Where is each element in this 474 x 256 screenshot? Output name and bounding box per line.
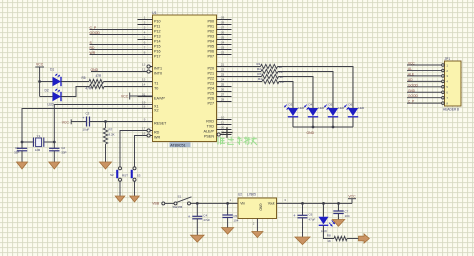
svg-text:VCC: VCC [36, 63, 44, 67]
wire P20 to R1 [232, 66, 261, 68]
wire LED D5 cathode [332, 117, 334, 127]
pin 33 P06 (right) [207, 45, 231, 53]
svg-text:13: 13 [142, 62, 146, 66]
junction dot (C6 node) [301, 202, 304, 205]
wire net GOOD to P1 pin [90, 31, 153, 35]
pin 7 P16 (left) [138, 45, 161, 53]
pin 39 P00 (right) [207, 15, 231, 23]
svg-text:INT1: INT1 [154, 67, 162, 71]
svg-text:C3: C3 [86, 112, 90, 116]
svg-text:10: 10 [221, 115, 225, 119]
junction dot (C7 node) [337, 202, 340, 205]
power VCC (EA/VP pin 31) [121, 93, 153, 100]
connector pin 1 wire net VCC [407, 62, 448, 68]
svg-text:LED: LED [338, 106, 345, 110]
cursor crosshair near PSEN [222, 127, 233, 138]
LED D1 [50, 68, 61, 87]
LED D6 [344, 102, 365, 117]
pin 9 RESET (left) [138, 117, 168, 125]
svg-text:AL: AL [408, 67, 412, 71]
svg-text:P23: P23 [207, 82, 214, 86]
svg-text:GOOD: GOOD [90, 31, 101, 35]
pin 36 P03 (right) [207, 30, 231, 38]
svg-text:23: 23 [221, 72, 225, 76]
svg-text:P14: P14 [154, 40, 161, 44]
svg-text:27: 27 [221, 92, 225, 96]
wire net GND to INT0 [91, 68, 148, 72]
pin 30 ALE/P (right) [204, 125, 232, 133]
switch S2 (push button) [110, 167, 128, 181]
svg-text:RD: RD [154, 131, 160, 135]
capacitor C2 33P (right) [49, 142, 66, 162]
svg-text:VCC: VCC [62, 120, 70, 124]
svg-text:4: 4 [144, 30, 146, 34]
svg-text:P17: P17 [154, 55, 161, 59]
pin 6 P15 (left) [138, 40, 161, 48]
pin 27 P26 (right) [207, 92, 231, 100]
svg-text:1K: 1K [327, 239, 331, 243]
svg-text:P16: P16 [154, 50, 161, 54]
svg-text:C1: C1 [15, 146, 19, 150]
wire net RD to P1 pin [90, 46, 153, 50]
capacitor C6 47uF (output electrolytic) [293, 203, 316, 237]
wire LED D4 cathode [312, 117, 314, 127]
capacitor C4 47uF (input electrolytic) [188, 203, 211, 235]
ground (S2) [115, 196, 125, 202]
svg-text:P05: P05 [207, 45, 214, 49]
svg-text:LED: LED [318, 106, 325, 110]
svg-text:C5: C5 [233, 214, 237, 218]
svg-text:VCC: VCC [408, 62, 415, 66]
pin 15 T1 (left) [138, 77, 159, 85]
svg-text:26: 26 [221, 87, 225, 91]
ground (right crystal cap) [49, 162, 60, 169]
svg-text:T0: T0 [154, 87, 158, 91]
green watermark text [218, 137, 257, 146]
svg-text:15: 15 [142, 77, 146, 81]
LED D2 [45, 89, 62, 107]
LED D4 [304, 102, 325, 117]
wire RD to switch S2 [120, 131, 147, 167]
svg-text:P26: P26 [207, 97, 214, 101]
svg-text:RESET: RESET [154, 122, 167, 126]
junction dot (C4 node) [196, 202, 199, 205]
wire S3 to ground [134, 181, 136, 196]
connector pin 7 wire net GOOD [407, 94, 448, 100]
pin 2 P11 (left) [138, 20, 161, 28]
svg-text:7: 7 [144, 45, 146, 49]
wire LED D6 cathode [352, 117, 354, 127]
junction dot (C5 node) [226, 202, 229, 205]
power VCC (5V rail) [348, 195, 356, 204]
svg-text:8: 8 [144, 50, 146, 54]
svg-text:32: 32 [221, 50, 225, 54]
pin 21 P20 (right) [207, 62, 231, 70]
svg-text:VBB: VBB [152, 202, 160, 206]
pin 4 P13 (left) [138, 30, 161, 38]
ground (C6) [295, 237, 310, 245]
svg-text:C_P: C_P [408, 100, 414, 104]
connector pin 2 wire net AL [407, 67, 448, 73]
svg-text:21: 21 [221, 62, 225, 66]
junction dot [38, 80, 41, 83]
svg-text:Vout: Vout [268, 202, 275, 206]
wire C3 to RESET pin [90, 121, 153, 123]
svg-text:47R: 47R [85, 87, 92, 91]
connector pin 6 wire net GND [407, 89, 448, 95]
svg-text:P01: P01 [207, 25, 214, 29]
svg-text:33P: 33P [61, 151, 66, 155]
svg-text:P22: P22 [207, 77, 214, 81]
wire R8 to port arrow [347, 238, 359, 240]
svg-text:R3: R3 [258, 72, 262, 76]
wire WR to switch S3 [135, 136, 148, 167]
svg-text:RXD: RXD [206, 120, 214, 124]
pin 14 T0 (left) [138, 82, 159, 90]
svg-text:GND: GND [408, 89, 416, 93]
svg-text:33P: 33P [14, 151, 19, 155]
svg-text:C6: C6 [309, 212, 313, 216]
pin 34 P05 (right) [207, 40, 231, 48]
svg-text:R4: R4 [258, 77, 262, 81]
ground (reset resistor) [100, 162, 112, 169]
svg-text:36: 36 [221, 30, 225, 34]
part value AT89C51 (highlighted) [170, 142, 191, 147]
connector pin 8 wire net C_P [407, 100, 448, 106]
svg-text:Y1: Y1 [37, 134, 41, 138]
svg-text:P06: P06 [207, 50, 214, 54]
connector JP1 body [443, 57, 461, 112]
wire X1 to crystal right node [54, 105, 152, 143]
svg-text:34: 34 [221, 40, 225, 44]
svg-text:33: 33 [221, 45, 225, 49]
wire LED ground rail [293, 126, 353, 128]
svg-text:1: 1 [144, 15, 146, 19]
pin 3 P12 (left) [138, 25, 161, 33]
capacitor C7 104 (bypass) [333, 203, 350, 219]
svg-text:P04: P04 [207, 40, 214, 44]
svg-text:D2: D2 [45, 89, 49, 93]
svg-text:39: 39 [221, 15, 225, 19]
wire net S to P1 pin [90, 41, 153, 45]
svg-text:U1: U1 [152, 11, 157, 15]
pin 35 P04 (right) [207, 35, 231, 43]
wire X2 to crystal left node [22, 109, 153, 143]
svg-text:GND: GND [91, 68, 99, 72]
svg-text:8.2K: 8.2K [109, 132, 115, 136]
ground (C4) [191, 235, 205, 242]
wire regulator pin2 to ground [256, 219, 258, 232]
wire D2 cathode to R6 [61, 87, 90, 97]
svg-text:P12: P12 [154, 30, 161, 34]
junction dot (crystal left) [21, 141, 24, 144]
svg-text:28: 28 [221, 97, 225, 101]
svg-text:12M: 12M [35, 148, 41, 152]
svg-text:12: 12 [142, 67, 146, 71]
svg-text:47R: 47R [96, 74, 103, 78]
svg-text:P27: P27 [207, 102, 214, 106]
connector pin 5 wire net GOOD [407, 83, 448, 89]
wire S2 to ground [119, 181, 121, 196]
svg-text:LED: LED [298, 106, 305, 110]
pin 11 TXD (right) [207, 120, 232, 128]
svg-text:C_P: C_P [90, 26, 97, 30]
junction dot (crystal right) [53, 141, 56, 144]
svg-text:104: 104 [345, 214, 350, 218]
svg-text:INT0: INT0 [154, 72, 162, 76]
svg-text:SW-PB: SW-PB [173, 205, 183, 209]
svg-text:R7: R7 [109, 128, 113, 132]
svg-text:37: 37 [221, 25, 225, 29]
svg-text:P02: P02 [207, 30, 214, 34]
svg-text:LED: LED [48, 102, 55, 106]
switch S3 (push button) [131, 167, 141, 181]
svg-text:D5: D5 [329, 102, 333, 106]
wire R6 to T0 [104, 86, 153, 88]
LED D5 [324, 102, 345, 117]
svg-text:P24: P24 [207, 87, 214, 91]
wire regulator output rail [277, 202, 353, 204]
pin 8 P17 (left) [138, 50, 161, 58]
pin 29 PSEN (right) [204, 130, 232, 138]
svg-text:35: 35 [221, 35, 225, 39]
svg-text:U2: U2 [238, 193, 242, 197]
svg-text:P21: P21 [207, 72, 214, 76]
ground (left crystal cap) [17, 162, 28, 169]
svg-text:P00: P00 [207, 20, 214, 24]
svg-text:RST: RST [122, 174, 128, 178]
pin 23 P22 (right) [207, 72, 231, 80]
wire P21 to R2 [232, 71, 262, 73]
wire D1 cathode to R5 [61, 81, 89, 83]
svg-text:WR: WR [154, 136, 160, 140]
svg-text:LED: LED [358, 106, 365, 110]
svg-text:VCC: VCC [348, 195, 356, 199]
svg-text:VCC: VCC [121, 94, 129, 98]
svg-text:10uF: 10uF [83, 128, 90, 132]
resistor R7 8.2K (reset pulldown) [103, 122, 114, 163]
wire net WR to P1 pin [90, 51, 153, 55]
svg-text:GOOD: GOOD [408, 94, 418, 98]
svg-text:T1: T1 [154, 82, 158, 86]
svg-text:WR: WR [90, 51, 96, 55]
wire R5 to T1 [104, 81, 153, 83]
svg-text:R1: R1 [257, 62, 261, 66]
svg-text:16: 16 [142, 131, 146, 135]
svg-text:AD: AD [408, 78, 413, 82]
connector pin 4 wire net AD [407, 78, 448, 84]
capacitor C1 33P (left) [14, 142, 27, 162]
svg-text:24: 24 [221, 77, 225, 81]
pin 28 P27 (right) [207, 97, 231, 105]
svg-text:GND: GND [259, 204, 263, 212]
junction dot (reset node) [104, 120, 107, 123]
capacitor C3 10uF (reset) [82, 112, 90, 132]
svg-text:L7805: L7805 [247, 193, 256, 197]
pin 16 WR (left) [142, 131, 161, 139]
svg-text:P15: P15 [154, 45, 161, 49]
svg-text:R8: R8 [327, 233, 331, 237]
svg-text:P20: P20 [207, 67, 214, 71]
power VCC (top left) [35, 63, 44, 97]
wire net C_P to P1 pin [90, 26, 153, 30]
ground (C7) [332, 220, 344, 227]
pin 22 P21 (right) [207, 67, 231, 75]
resistor R8 1K [327, 233, 347, 243]
svg-text:22: 22 [221, 67, 225, 71]
pin 38 P01 (right) [207, 20, 231, 28]
ground (regulator) [252, 232, 263, 238]
wire D1 anode [40, 81, 53, 83]
wire R3 to LED drop [279, 77, 314, 109]
svg-text:38: 38 [221, 20, 225, 24]
svg-text:+: + [293, 213, 296, 218]
svg-text:R2: R2 [257, 67, 261, 71]
svg-text:RD: RD [90, 46, 95, 50]
ground (C5) [222, 228, 234, 235]
svg-text:30: 30 [221, 125, 225, 129]
svg-text:P13: P13 [154, 35, 161, 39]
svg-text:18: 18 [142, 104, 146, 108]
resistor R6 47R [85, 84, 104, 90]
svg-text:D1: D1 [50, 68, 54, 72]
pin 24 P23 (right) [207, 77, 231, 85]
voltage regulator U2 L7805 [230, 193, 287, 226]
pin 31 EA/VP (left) [138, 92, 166, 100]
LED D3 [284, 102, 305, 117]
microcontroller U1 AT89C51 body [152, 11, 217, 142]
resistor R1 1K [257, 62, 284, 69]
svg-text:S3: S3 [137, 174, 141, 178]
junction dot (rail) [332, 126, 335, 129]
pin 13 INT1 (left) [142, 62, 162, 70]
svg-text:3: 3 [144, 25, 146, 29]
resistor R5 47R [82, 74, 104, 84]
wire R1 to LED drop [278, 67, 354, 109]
capacitor C5 104 [222, 203, 238, 227]
svg-text:6: 6 [144, 40, 146, 44]
pin 32 P07 (right) [207, 50, 231, 58]
svg-text:D4: D4 [309, 102, 313, 106]
port arrow (net out) [359, 234, 370, 243]
svg-text:5: 5 [144, 35, 146, 39]
pin 18 X2 (left) [138, 104, 159, 112]
power port VBB (battery input) [152, 202, 174, 206]
pin 17 RD (left) [142, 126, 160, 134]
resistor R2 1K [257, 67, 284, 74]
svg-text:2: 2 [144, 20, 146, 24]
svg-text:LED: LED [321, 229, 328, 233]
wire D2 anode [40, 96, 53, 98]
svg-text:D6: D6 [349, 102, 353, 106]
svg-text:P10: P10 [154, 20, 161, 24]
power VCC (reset) [62, 119, 87, 124]
pin 10 RXD (right) [206, 115, 231, 123]
pin 1 P10 (left) [138, 15, 161, 23]
svg-text:GND: GND [307, 131, 315, 135]
svg-text:R5: R5 [82, 76, 86, 80]
junction dot (D7 node) [322, 202, 325, 205]
svg-text:+: + [188, 214, 191, 219]
resistor R3 1K [258, 72, 285, 79]
svg-text:JP1: JP1 [445, 57, 451, 61]
svg-text:11: 11 [221, 120, 224, 124]
svg-text:TXD: TXD [207, 125, 215, 129]
svg-text:P25: P25 [207, 92, 214, 96]
svg-text:AT89C51: AT89C51 [170, 143, 185, 147]
pin 37 P02 (right) [207, 25, 231, 33]
ground (S3) [130, 196, 140, 202]
pin 5 P14 (left) [138, 35, 161, 43]
wire D7 cathode to R8 [324, 225, 335, 238]
crystal Y1 [22, 134, 54, 152]
LED D7 (power indicator) [319, 203, 335, 232]
svg-text:17: 17 [142, 126, 146, 130]
svg-text:P07: P07 [207, 55, 214, 59]
svg-text:PSEN: PSEN [204, 135, 214, 139]
wire switch to regulator input [191, 202, 239, 204]
svg-text:ALE: ALE [408, 72, 414, 76]
resistor R4 1K [258, 77, 285, 84]
junction dot (rail) [312, 126, 315, 129]
svg-text:47uF: 47uF [203, 218, 210, 222]
svg-text:X2: X2 [154, 109, 159, 113]
wire R2 to LED drop [278, 72, 333, 109]
switch S1 SW-PB [173, 194, 192, 209]
svg-text:HEADER 8: HEADER 8 [443, 107, 459, 111]
svg-text:GOOD: GOOD [408, 83, 418, 87]
svg-text:S2: S2 [110, 173, 114, 177]
svg-text:C7: C7 [345, 210, 349, 214]
svg-text:C2: C2 [61, 146, 65, 150]
svg-text:Vin: Vin [240, 202, 245, 206]
svg-text:C4: C4 [203, 213, 207, 217]
svg-text:14: 14 [142, 82, 146, 86]
pin 19 X1 (left) [138, 100, 159, 108]
svg-text:ALE/P: ALE/P [204, 130, 215, 134]
wire LED D3 cathode [292, 117, 294, 127]
wire P22 to R3 [232, 76, 262, 78]
svg-text:S1: S1 [178, 194, 182, 198]
svg-text:25: 25 [221, 82, 225, 86]
pin 12 INT0 (left) [142, 67, 162, 75]
wire P23 to R4 [232, 81, 263, 83]
pin 25 P24 (right) [207, 82, 231, 90]
wire R4 to LED drop [279, 82, 293, 109]
svg-text:P03: P03 [207, 35, 214, 39]
svg-text:D3: D3 [289, 102, 293, 106]
svg-text:P11: P11 [154, 25, 160, 29]
svg-text:9: 9 [144, 117, 146, 121]
svg-text:EA/VP: EA/VP [154, 97, 165, 101]
svg-text:47uF: 47uF [309, 218, 316, 222]
connector pin 3 wire net ALE [407, 72, 448, 78]
pin 26 P25 (right) [207, 87, 231, 95]
